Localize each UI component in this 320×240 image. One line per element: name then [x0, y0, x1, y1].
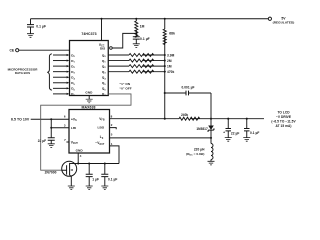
node OE RC junction: [135, 32, 137, 34]
svg-text:3.9M: 3.9M: [167, 53, 175, 57]
svg-text:“0” OFF: “0” OFF: [120, 86, 132, 90]
pin 7 VOUT stub: [66, 141, 69, 143]
resistor 240k: [179, 117, 200, 120]
svg-text:1M: 1M: [140, 25, 145, 29]
wire Q1 out: [108, 60, 129, 62]
wire D7: [53, 93, 67, 95]
ground 0.1uF: [101, 186, 108, 190]
wire D3: [53, 71, 67, 73]
MAX638 GND pin wire: [77, 153, 79, 164]
wire down to LBI and cap: [50, 119, 52, 137]
svg-text:(RDC = 0.8Ω): (RDC = 0.8Ω): [186, 152, 204, 157]
wire input to +VS: [31, 118, 69, 120]
svg-text:TO LCD: TO LCD: [277, 110, 290, 114]
terminal 5V regulated: [268, 17, 271, 20]
wire down to output node: [210, 93, 212, 119]
svg-text:220 µH: 220 µH: [194, 148, 205, 152]
wire rail to latch VCC: [100, 18, 102, 20]
diode 1N5817: [210, 118, 212, 120]
wire D0: [53, 54, 67, 56]
capacitor C2 0.1uF on DIS node: [135, 33, 137, 36]
inductor 220uH: [210, 138, 212, 144]
ground output cap2: [243, 138, 250, 142]
capacitor 0.001uF feedback: [164, 92, 166, 94]
svg-text:74HC373: 74HC373: [81, 32, 96, 36]
svg-text:470k: 470k: [167, 70, 174, 74]
svg-text:LBI: LBI: [71, 126, 76, 130]
svg-text:0.1 µF: 0.1 µF: [250, 131, 259, 135]
wire D1: [53, 60, 67, 62]
summing bus node wire: [164, 38, 166, 119]
resistor 2M: [129, 59, 154, 62]
+5V rail: [31, 18, 269, 20]
svg-text:“1” ON: “1” ON: [120, 82, 131, 86]
latch 74HC373 U1: [70, 41, 109, 96]
svg-text:GND: GND: [76, 148, 84, 152]
transistor Q1 2N7000: [62, 161, 77, 176]
svg-text:2N7000: 2N7000: [45, 170, 57, 174]
capacitor 22uF input: [48, 138, 55, 140]
svg-text:2M: 2M: [167, 59, 172, 63]
svg-text:0.1 µF: 0.1 µF: [108, 177, 117, 181]
capacitor C1 0.1uF rail decoupling: [30, 19, 32, 25]
svg-text:GND: GND: [85, 91, 93, 95]
svg-text:22 µF: 22 µF: [231, 131, 239, 135]
resistor 1M: [129, 65, 154, 68]
ground C2: [133, 44, 140, 48]
data bus brace: [47, 54, 52, 90]
resistor 3.9M: [129, 54, 154, 57]
wire CE to latch: [19, 49, 70, 51]
capacitor 1uF: [88, 162, 90, 164]
svg-text:−V DRIVE: −V DRIVE: [276, 115, 291, 119]
capacitor 0.1uF output: [246, 118, 248, 120]
svg-text:68k: 68k: [169, 32, 175, 36]
node bus junction 0: [164, 54, 166, 56]
node input junction: [50, 118, 52, 120]
ground inductor: [208, 161, 215, 165]
svg-text:1M: 1M: [167, 64, 172, 68]
ground FET source: [68, 186, 75, 190]
ground C1: [27, 34, 34, 38]
svg-text:CE: CE: [10, 48, 15, 52]
-VOUT pin wire down: [110, 146, 120, 164]
svg-text:DATA BUS: DATA BUS: [15, 71, 30, 75]
node bus junction 1: [164, 60, 166, 62]
ground latch: [86, 99, 93, 103]
DIS bubble: [110, 47, 113, 50]
svg-text:0.1 µF: 0.1 µF: [140, 37, 150, 41]
svg-text:+: +: [223, 131, 225, 135]
capacitor 0.1uF bypass: [104, 162, 106, 164]
ground input cap: [48, 144, 55, 148]
wire D4: [53, 76, 67, 78]
svg-text:LBO: LBO: [98, 126, 105, 130]
svg-text:240k: 240k: [181, 113, 188, 117]
wire D6: [53, 87, 67, 89]
svg-text:0.1 µF: 0.1 µF: [36, 25, 46, 29]
wire LBI: [51, 127, 69, 129]
node bus junction 2: [164, 65, 166, 67]
node bus junction 3: [164, 71, 166, 73]
VFB feedback line: [110, 118, 180, 120]
ground 1uF: [86, 186, 93, 190]
wire Q7 to FET gate: [41, 94, 131, 170]
bottom -V rail: [77, 162, 79, 164]
resistor 470k: [129, 70, 154, 73]
svg-text:6.5 TO 10V: 6.5 TO 10V: [11, 118, 30, 122]
svg-text:AT 15 mA): AT 15 mA): [276, 124, 292, 128]
wire D2: [53, 65, 67, 67]
wire Q0 out: [108, 54, 129, 56]
svg-text:22 µF: 22 µF: [38, 139, 46, 143]
svg-text:MAX638: MAX638: [82, 105, 96, 109]
svg-text:DIS: DIS: [100, 46, 105, 50]
wire Q2 out: [108, 65, 129, 67]
wire D5: [53, 82, 67, 84]
svg-text:(−6.5 TO −11.5V: (−6.5 TO −11.5V: [271, 119, 296, 123]
resistor 1M (OE pull-up RC): [135, 18, 137, 20]
wire Q3 out: [108, 71, 129, 73]
svg-text:1 µF: 1 µF: [92, 177, 99, 181]
regulator MAX638 U2: [69, 110, 110, 154]
resistor 68k to summing bus: [164, 18, 166, 20]
svg-text:1N5817: 1N5817: [196, 127, 208, 131]
svg-text:(REGULATED): (REGULATED): [273, 20, 295, 24]
ground output cap1: [225, 138, 232, 142]
LX line: [110, 137, 212, 139]
svg-text:0.001 µF: 0.001 µF: [181, 85, 194, 89]
capacitor 22uF output: [227, 118, 229, 120]
wire node to DIS pin: [112, 33, 136, 48]
